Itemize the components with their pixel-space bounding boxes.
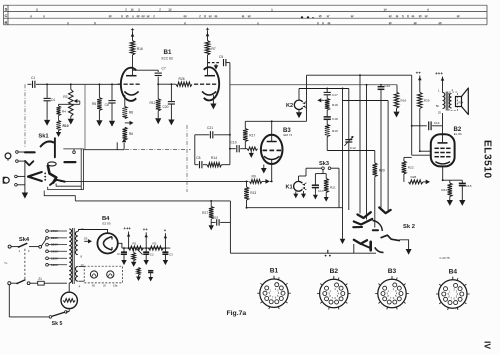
svg-text:K1: K1 bbox=[286, 185, 293, 191]
svg-text:R3: R3 bbox=[63, 95, 67, 99]
strip row label box S bbox=[3, 5, 5, 25]
arrow into Sk1 bbox=[58, 131, 60, 133]
head K1 bbox=[294, 181, 303, 191]
svg-text:25: 25 bbox=[438, 111, 442, 115]
svg-text:R22: R22 bbox=[408, 166, 414, 170]
svg-text:C20: C20 bbox=[162, 105, 168, 109]
B3 cathode arc bbox=[264, 156, 280, 159]
resistor R16 output stage bbox=[396, 85, 398, 92]
wire C13 R21 top bbox=[315, 173, 326, 175]
input jack 2 bbox=[3, 177, 9, 183]
B2 cathode arc bbox=[435, 162, 450, 164]
svg-text:Sk3: Sk3 bbox=[319, 161, 329, 167]
svg-text:ECC 83: ECC 83 bbox=[162, 57, 173, 61]
input terminals bbox=[16, 151, 19, 154]
K1 frame right bbox=[338, 168, 340, 208]
svg-text:C10: C10 bbox=[231, 141, 237, 145]
svg-text:EZ 80: EZ 80 bbox=[103, 222, 111, 226]
tube B4 envelope bbox=[97, 233, 117, 253]
svg-text:R28: R28 bbox=[411, 175, 417, 179]
ground at B3 grid bbox=[250, 149, 252, 153]
svg-text:B4: B4 bbox=[449, 269, 458, 276]
B4 electrodes bbox=[103, 237, 112, 244]
ground below K2 bbox=[298, 110, 300, 113]
transformer heater secondary bbox=[75, 266, 77, 281]
junction with dots on bus D bbox=[327, 250, 329, 253]
dial lamp 2 bbox=[107, 271, 114, 278]
svg-text:C17: C17 bbox=[332, 93, 338, 97]
B3 grid dashes bbox=[263, 149, 268, 151]
resistor R9 bbox=[250, 179, 263, 183]
supply pin marker for R16 bbox=[131, 29, 134, 31]
Sk1 arc contact bbox=[41, 141, 54, 146]
svg-text:C1: C1 bbox=[117, 252, 121, 256]
supply pin marker for R7 bbox=[206, 28, 209, 30]
anode dashed link to C9 bbox=[208, 62, 220, 64]
Sk4 selector wire bbox=[41, 238, 46, 246]
wire shield x85 bbox=[84, 84, 86, 149]
electrolytic C3 bbox=[164, 248, 166, 252]
wire bus y88 to C17 chain bbox=[299, 88, 349, 90]
heater wires bbox=[79, 265, 85, 267]
resistor R12 bbox=[157, 84, 159, 99]
Sk1 vertical contact bbox=[54, 138, 56, 157]
Sk1 right dash contact bbox=[65, 161, 76, 163]
switch Sk5 bbox=[66, 311, 69, 314]
input jack 1 bbox=[5, 153, 11, 159]
tube B1 triode a envelope bbox=[121, 68, 136, 101]
wire top line corner to C14 bbox=[411, 75, 413, 155]
wire Sk2 right to ground bbox=[399, 240, 408, 249]
Sk1 contact dots bbox=[44, 173, 46, 175]
component location strip frame bbox=[8, 4, 487, 6]
B1b grid dashes bbox=[194, 83, 198, 85]
stub bbox=[116, 142, 118, 149]
Sk2 lower arc bbox=[375, 247, 384, 252]
Sk1 left chevron bbox=[28, 172, 42, 181]
B2 anode lead bbox=[442, 113, 444, 142]
capacitor C7 bbox=[133, 69, 159, 71]
svg-text:R27: R27 bbox=[202, 211, 208, 215]
svg-text:C15: C15 bbox=[466, 184, 472, 188]
svg-text:R20: R20 bbox=[379, 169, 385, 173]
ground arrow near B3 cathode bbox=[263, 165, 265, 169]
wire x342 vertical with ground arrow bbox=[342, 89, 344, 239]
svg-text:B3: B3 bbox=[388, 268, 397, 275]
wire bus Sk3 to Sk2 bbox=[247, 207, 343, 209]
wire R6 down with up-arrow junction bbox=[123, 143, 125, 146]
small RC pair bbox=[137, 268, 140, 276]
B2 cathode lead bbox=[442, 166, 444, 180]
electrolytic C1 psu bbox=[123, 248, 125, 252]
svg-text:+++: +++ bbox=[124, 226, 132, 231]
Sk2 contact arm a1 bbox=[358, 212, 371, 218]
svg-text:C23: C23 bbox=[213, 216, 219, 220]
svg-text:B2: B2 bbox=[330, 268, 339, 275]
K1 frame left bbox=[305, 168, 307, 176]
cathode tap arrow bbox=[125, 122, 130, 124]
B1b cathode lead and ground bbox=[212, 95, 214, 101]
signal line to output stage bbox=[307, 74, 412, 76]
capacitor C23 bbox=[211, 221, 215, 223]
resistor R8 bbox=[123, 107, 128, 119]
B1b anode bar bbox=[205, 75, 216, 77]
resistor R10 bbox=[57, 121, 61, 131]
wire bus D bottom bbox=[230, 252, 376, 254]
electrolytic C2 bbox=[145, 248, 147, 252]
wire x360 vertical bbox=[359, 75, 361, 213]
wire to Sk1 box bbox=[84, 149, 125, 151]
resistor R5 bbox=[98, 84, 100, 97]
B3 anode bar bbox=[267, 141, 277, 143]
resistor R22 bbox=[403, 157, 405, 161]
svg-text:C14: C14 bbox=[434, 121, 440, 125]
input ground bbox=[24, 191, 26, 193]
B2 grid dash rows bbox=[435, 147, 439, 149]
screen dash-dot mid bbox=[186, 125, 188, 192]
svg-text:++: ++ bbox=[143, 227, 148, 232]
capacitor C6 bbox=[111, 84, 113, 100]
svg-text:245V: 245V bbox=[51, 229, 58, 233]
mains lower wire to Sk5 bbox=[8, 285, 10, 317]
svg-text:C7: C7 bbox=[162, 66, 166, 70]
capacitor C15 bbox=[461, 180, 463, 183]
svg-text:R4: R4 bbox=[62, 110, 66, 114]
svg-text:C3: C3 bbox=[169, 252, 173, 256]
resistor R29 bbox=[419, 76, 421, 93]
svg-text:S3: S3 bbox=[84, 237, 88, 241]
input screen dash-dot bbox=[24, 84, 26, 148]
capacitor C20 bbox=[170, 84, 172, 101]
capacitor C10 bbox=[230, 148, 236, 150]
screen dash-dot horizontal bbox=[125, 149, 191, 151]
wire R22 feedback bbox=[404, 156, 412, 158]
svg-text:IV: IV bbox=[483, 341, 493, 349]
svg-text:C1: C1 bbox=[31, 76, 35, 80]
Sk2 contact arm a2 bbox=[354, 219, 372, 225]
Sk1 nested wires bbox=[56, 184, 81, 187]
trimmer C12 branch bbox=[348, 89, 350, 140]
wire vertical x306 from top line to B3 anode line bbox=[306, 75, 308, 121]
svg-text:R21: R21 bbox=[330, 186, 336, 190]
B1a anode bar bbox=[126, 75, 137, 77]
resistor R14 bbox=[203, 164, 207, 166]
svg-text:R14: R14 bbox=[211, 156, 217, 160]
svg-text:R19: R19 bbox=[332, 129, 338, 133]
tube B1 triode b envelope bbox=[204, 67, 219, 100]
capacitor C13 bbox=[314, 174, 316, 185]
resistor R17 bbox=[244, 121, 246, 128]
capacitor C16 bbox=[380, 84, 382, 87]
Sk2 contact arm b1 bbox=[354, 240, 367, 244]
svg-text:R6: R6 bbox=[129, 132, 133, 136]
resistor R27 bbox=[210, 201, 212, 207]
speaker bbox=[456, 97, 462, 107]
wire R19 down to R20 branch bbox=[326, 137, 328, 151]
svg-text:R7: R7 bbox=[212, 47, 216, 51]
svg-text:C12: C12 bbox=[350, 146, 356, 150]
svg-text:R9: R9 bbox=[252, 175, 256, 179]
svg-text:R1: R1 bbox=[133, 242, 137, 246]
svg-text:S: S bbox=[5, 6, 8, 11]
Sk2 contact arm a3 bbox=[379, 208, 390, 214]
svg-text:C2: C2 bbox=[150, 252, 154, 256]
Sk2 rotor arc bbox=[373, 221, 383, 232]
svg-text:110V: 110V bbox=[51, 263, 58, 267]
wire bus y84 to R16b bbox=[230, 84, 377, 86]
capacitor C18 bbox=[326, 110, 328, 117]
svg-text:R12: R12 bbox=[149, 101, 155, 105]
Sk2 thick bar bbox=[369, 242, 372, 250]
resistor R20 bbox=[374, 151, 376, 164]
svg-text:B1: B1 bbox=[164, 49, 172, 56]
resistor R2 bbox=[148, 246, 163, 250]
tube B3 envelope bbox=[261, 135, 283, 164]
B1a cathode bbox=[124, 91, 138, 95]
Sk2 contact bar bbox=[353, 226, 362, 228]
resistor R28 with arrow bbox=[409, 180, 424, 184]
output transformer secondary bbox=[449, 94, 451, 109]
head K2 bbox=[294, 100, 302, 109]
svg-text:C4: C4 bbox=[51, 98, 55, 102]
svg-text:19a: 19a bbox=[113, 284, 118, 288]
svg-text:Fig.7a: Fig.7a bbox=[227, 310, 247, 317]
resistor R19 bbox=[326, 120, 328, 125]
small ground at anode link bbox=[215, 64, 217, 65]
svg-text:R16: R16 bbox=[401, 99, 407, 103]
svg-text:220V: 220V bbox=[51, 236, 58, 240]
fuse Z1 bbox=[30, 282, 38, 284]
wire grid bus B1a bbox=[47, 83, 117, 85]
Sk1 bent contact bbox=[25, 161, 33, 165]
Sk2 right arm bbox=[381, 235, 399, 240]
svg-text:EL 84: EL 84 bbox=[454, 132, 462, 136]
Sk1 pivot bbox=[48, 162, 57, 166]
lamp box dashed bbox=[84, 266, 122, 283]
svg-text:++: ++ bbox=[416, 71, 422, 76]
resistor R4 bbox=[57, 106, 61, 116]
capacitor C1 bbox=[28, 83, 32, 85]
B4 output wire bbox=[118, 243, 122, 248]
arrow after R9 bbox=[262, 180, 266, 182]
secondary dashed box bbox=[449, 92, 458, 111]
network left wire bbox=[194, 135, 196, 165]
wire C9 down to coupling network bbox=[229, 63, 231, 165]
wire C7 to R26 bbox=[158, 83, 176, 85]
strip marker dots bbox=[301, 16, 303, 18]
resistor R7 bbox=[205, 41, 210, 55]
capacitor C8 bbox=[195, 164, 199, 166]
transformer HT secondary bbox=[75, 231, 77, 254]
capacitor C21 bbox=[195, 134, 210, 136]
resistor R31 bbox=[449, 180, 451, 183]
svg-text:C: C bbox=[4, 13, 7, 18]
svg-text:C21: C21 bbox=[207, 126, 213, 130]
svg-text:R18: R18 bbox=[332, 103, 338, 107]
ground below C20 bbox=[170, 118, 172, 120]
resistor R1 bbox=[128, 246, 143, 250]
svg-text:Sk4: Sk4 bbox=[19, 237, 30, 243]
svg-text:R29: R29 bbox=[424, 99, 430, 103]
svg-text:R5: R5 bbox=[92, 102, 96, 106]
svg-text:R10: R10 bbox=[63, 124, 69, 128]
mains transformer primary bbox=[69, 229, 71, 283]
B2 anode bar bbox=[438, 142, 448, 144]
wire head feed to Sk2 bbox=[343, 100, 389, 102]
svg-text:C6: C6 bbox=[105, 103, 109, 107]
B1a cathode lead bbox=[124, 95, 126, 107]
svg-text:R13: R13 bbox=[250, 191, 256, 195]
variable tap arrow at R18 bbox=[317, 98, 321, 102]
svg-text:~: ~ bbox=[4, 261, 8, 267]
Sk1 left bar contact bbox=[25, 151, 35, 153]
wire R7 to B1b anode bbox=[207, 55, 209, 76]
B1b cathode bbox=[202, 91, 216, 95]
svg-text:EL3510: EL3510 bbox=[482, 140, 493, 179]
svg-text:C18: C18 bbox=[332, 117, 338, 121]
resistor R6 bbox=[123, 127, 128, 140]
Sk4 coupling dashed bbox=[24, 249, 26, 280]
resistor R30 psu bbox=[132, 253, 136, 261]
transformer taps bbox=[46, 230, 49, 233]
Sk2 small bar bbox=[373, 229, 378, 231]
svg-text:10: 10 bbox=[81, 227, 85, 231]
Sk1 box bbox=[80, 149, 82, 190]
R3 wiper arrow bbox=[74, 99, 78, 103]
input wires bbox=[18, 151, 34, 153]
svg-text:C 20 75: C 20 75 bbox=[440, 256, 451, 260]
tube B2 envelope bbox=[431, 134, 455, 166]
capacitor C17 bbox=[326, 89, 328, 93]
transformer core lines bbox=[72, 228, 74, 284]
B3 cathode lead bbox=[271, 160, 273, 182]
grounds below K1 bbox=[295, 191, 297, 193]
Sk1 main arm bbox=[48, 166, 56, 183]
wire supply to transformer bbox=[442, 77, 444, 93]
svg-text:R2: R2 bbox=[153, 242, 157, 246]
svg-text:R8: R8 bbox=[129, 111, 133, 115]
svg-text:R: R bbox=[4, 20, 7, 25]
wire B3 anode line bbox=[245, 120, 306, 122]
svg-text:C9: C9 bbox=[219, 55, 223, 59]
potentiometer R3 bbox=[70, 84, 72, 89]
ground below R12 bbox=[157, 111, 159, 119]
svg-text:Sk1: Sk1 bbox=[38, 134, 49, 140]
capacitor C4 bbox=[46, 84, 48, 98]
wire x366 vertical bbox=[366, 85, 368, 220]
svg-text:+++: +++ bbox=[435, 71, 443, 76]
resistor R18 bbox=[326, 95, 328, 98]
svg-text:5b: 5b bbox=[436, 104, 440, 108]
motor bbox=[68, 283, 70, 292]
output transformer primary bbox=[443, 93, 445, 109]
dial lamp 1 bbox=[90, 271, 97, 278]
resistor R13 bbox=[246, 181, 248, 187]
wire R29 to screen grid bbox=[419, 109, 421, 152]
wire bus B bbox=[75, 200, 230, 202]
wire R16 to B1a anode bbox=[132, 55, 134, 76]
svg-text:125V: 125V bbox=[51, 256, 58, 260]
svg-text:R31: R31 bbox=[441, 188, 447, 192]
capacitor C9 bbox=[223, 59, 225, 66]
svg-text:R16: R16 bbox=[137, 47, 143, 51]
junction dots bbox=[46, 83, 48, 85]
Sk2 contact arm b2 bbox=[361, 244, 370, 248]
svg-text:EM 71: EM 71 bbox=[284, 133, 293, 137]
svg-text:R17: R17 bbox=[249, 134, 255, 138]
resistor R16 bbox=[130, 41, 135, 55]
B3 anode lead bbox=[271, 121, 273, 141]
svg-text:C8: C8 bbox=[196, 156, 200, 160]
svg-text:Z1: Z1 bbox=[38, 277, 42, 281]
svg-text:K2: K2 bbox=[286, 103, 293, 109]
svg-text:Sk 2: Sk 2 bbox=[403, 224, 415, 230]
svg-text:R26: R26 bbox=[179, 77, 185, 81]
Sk1 bottom arm bbox=[50, 180, 65, 185]
wire bus A grid return bbox=[60, 180, 249, 182]
resistor R26 bbox=[176, 82, 192, 86]
svg-text:Sk 5: Sk 5 bbox=[52, 321, 63, 327]
capacitor C14 bbox=[412, 125, 427, 127]
svg-text:200V: 200V bbox=[51, 243, 58, 247]
HT bus bbox=[122, 247, 170, 249]
svg-text:145V: 145V bbox=[51, 249, 58, 253]
B1a grid dashes bbox=[118, 83, 122, 85]
Sk2 stub to bus D bbox=[353, 244, 355, 253]
resistor R21 bbox=[325, 174, 327, 179]
wire input 2 terminals bbox=[17, 175, 25, 177]
wire grid1 into B2 bbox=[412, 154, 431, 156]
svg-text:C13: C13 bbox=[318, 189, 324, 193]
grid stopper R15 bbox=[240, 148, 247, 150]
HT wire to rectifier bbox=[79, 230, 108, 234]
svg-text:B1: B1 bbox=[270, 268, 279, 275]
transformer core bbox=[445, 92, 447, 111]
wire x230 vertical bbox=[229, 201, 231, 253]
